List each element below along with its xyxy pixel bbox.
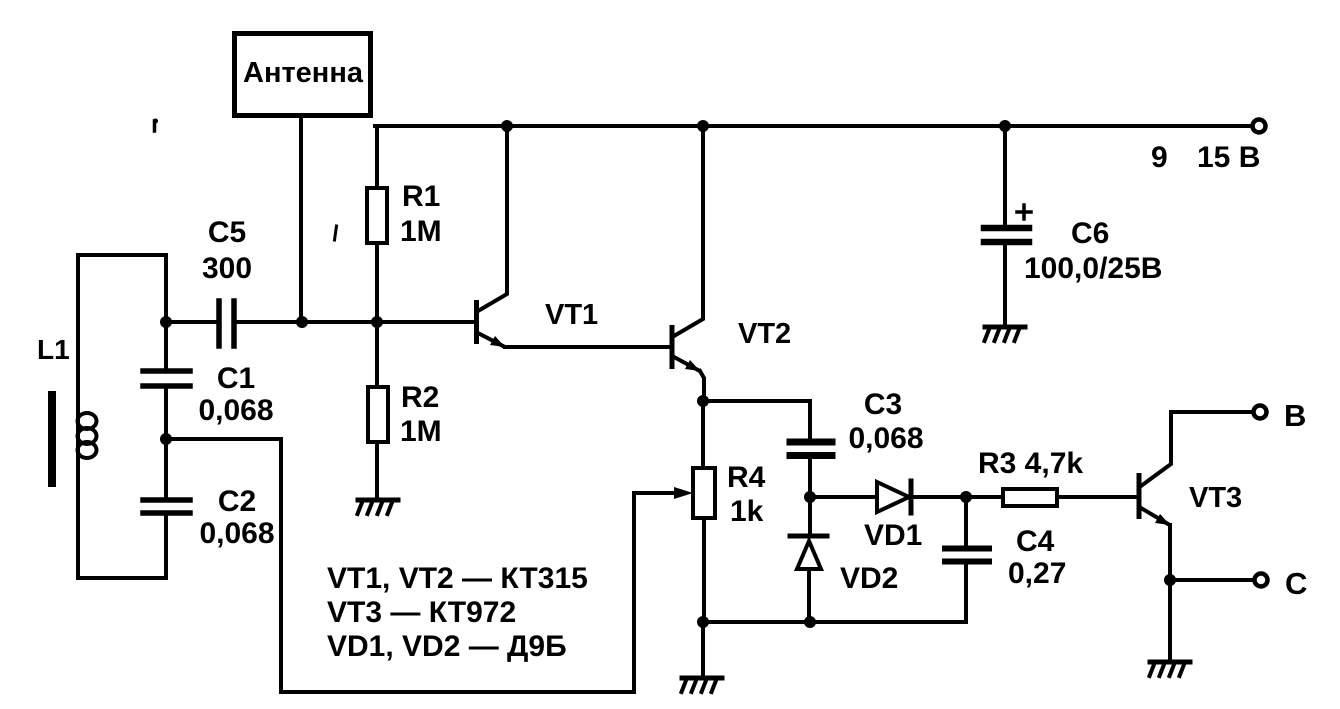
capacitor C6 bbox=[984, 126, 1162, 323]
transistor VT3 bbox=[1137, 412, 1253, 580]
resistor R3 bbox=[966, 447, 1137, 506]
node rail C6 bbox=[999, 120, 1011, 132]
wire bottom rail bbox=[703, 620, 966, 624]
capacitor C2 bbox=[143, 485, 275, 550]
node L1 top tap bbox=[160, 316, 172, 328]
wire main input line bbox=[166, 320, 474, 324]
ground under R4 bbox=[682, 678, 723, 692]
svg-text:B: B bbox=[1284, 398, 1306, 433]
svg-text:C4: C4 bbox=[1016, 525, 1055, 558]
transistor VT1 bbox=[474, 126, 598, 347]
svg-text:VT2: VT2 bbox=[738, 318, 791, 350]
svg-text:R2: R2 bbox=[401, 381, 439, 414]
svg-text:R4: R4 bbox=[727, 461, 766, 494]
node C1-C2 junction bbox=[160, 433, 172, 445]
wire to ground under R4 bbox=[701, 622, 705, 676]
node R4 bottom bbox=[697, 616, 709, 628]
node rail VT2 collector bbox=[697, 120, 709, 132]
terminal C bbox=[1255, 566, 1308, 601]
svg-text:0,068: 0,068 bbox=[199, 517, 274, 550]
svg-text:VT3: VT3 bbox=[1189, 482, 1242, 514]
svg-text:VD1: VD1 bbox=[864, 519, 922, 552]
svg-text:VT1, VT2 — КТ315: VT1, VT2 — КТ315 bbox=[327, 562, 588, 595]
capacitor C1 bbox=[143, 362, 274, 427]
wire AGC feedback path bbox=[166, 439, 634, 692]
svg-text:1M: 1M bbox=[400, 415, 442, 448]
svg-text:VD2: VD2 bbox=[840, 562, 898, 595]
svg-text:C5: C5 bbox=[208, 216, 246, 249]
svg-text:300: 300 bbox=[202, 252, 252, 285]
wire +V rail bbox=[375, 124, 1252, 128]
svg-text:15 В: 15 В bbox=[1197, 141, 1260, 174]
capacitor C3 bbox=[790, 388, 924, 456]
node VD2 bottom bbox=[804, 616, 816, 628]
node VT3 emitter junction bbox=[1164, 574, 1176, 586]
svg-text:VT3 — КТ972: VT3 — КТ972 bbox=[327, 596, 516, 629]
resistor R1 bbox=[367, 126, 442, 322]
svg-text:0,27: 0,27 bbox=[1008, 557, 1066, 590]
svg-text:C: C bbox=[1285, 566, 1307, 601]
terminal +V bbox=[1253, 120, 1266, 133]
wire emitter to terminal C bbox=[1170, 578, 1252, 582]
wire emitter junction to C3 bbox=[703, 401, 810, 439]
svg-text:C3: C3 bbox=[864, 388, 902, 421]
wire L1 tank loop bbox=[78, 255, 166, 578]
node detector junction bbox=[804, 491, 816, 503]
svg-text:Антенна: Антенна bbox=[243, 57, 364, 89]
svg-text:C2: C2 bbox=[218, 485, 256, 518]
svg-text:L1: L1 bbox=[37, 334, 70, 365]
svg-text:100,0/25В: 100,0/25В bbox=[1024, 252, 1162, 285]
svg-text:0,068: 0,068 bbox=[848, 422, 923, 455]
svg-text:C1: C1 bbox=[217, 362, 255, 395]
wire C3 to detector node bbox=[808, 461, 812, 497]
ground under R2 bbox=[358, 500, 399, 514]
node R1-R2 base bbox=[371, 316, 383, 328]
node antenna tap bbox=[296, 316, 308, 328]
svg-text:0,068: 0,068 bbox=[198, 394, 273, 427]
svg-text:R3 4,7k: R3 4,7k bbox=[978, 447, 1083, 480]
diode VD2 bbox=[790, 497, 898, 622]
wire to ground under VT3 bbox=[1168, 580, 1172, 660]
wire antenna lead bbox=[299, 117, 303, 322]
antenna box bbox=[235, 34, 371, 116]
svg-text:1k: 1k bbox=[730, 495, 764, 528]
node VT2 emitter junction bbox=[697, 395, 709, 407]
parts list text bbox=[327, 562, 588, 663]
potentiometer R4 bbox=[634, 401, 766, 622]
node rail VT1 collector bbox=[501, 120, 513, 132]
ground under VT3 bbox=[1150, 662, 1191, 676]
label 9...15 V bbox=[1151, 141, 1260, 174]
terminal B bbox=[1254, 398, 1307, 433]
svg-text:VD1, VD2 — Д9Б: VD1, VD2 — Д9Б bbox=[327, 630, 567, 663]
capacitor C5 bbox=[202, 216, 252, 346]
node VD1-R3-C4 junction bbox=[960, 491, 972, 503]
transistor VT2 bbox=[670, 126, 792, 401]
ground under C6 bbox=[985, 327, 1026, 341]
inductor L1 bbox=[37, 334, 97, 483]
svg-text:1M: 1M bbox=[400, 215, 442, 248]
capacitor C4 bbox=[945, 497, 1066, 622]
svg-text:9: 9 bbox=[1151, 141, 1168, 174]
svg-text:VT1: VT1 bbox=[545, 299, 598, 331]
svg-text:C6: C6 bbox=[1071, 217, 1109, 250]
diode VD1 bbox=[810, 481, 966, 552]
resistor R2 bbox=[368, 322, 442, 497]
wire VT1 emitter to VT2 base bbox=[505, 345, 668, 349]
svg-text:R1: R1 bbox=[402, 180, 440, 213]
